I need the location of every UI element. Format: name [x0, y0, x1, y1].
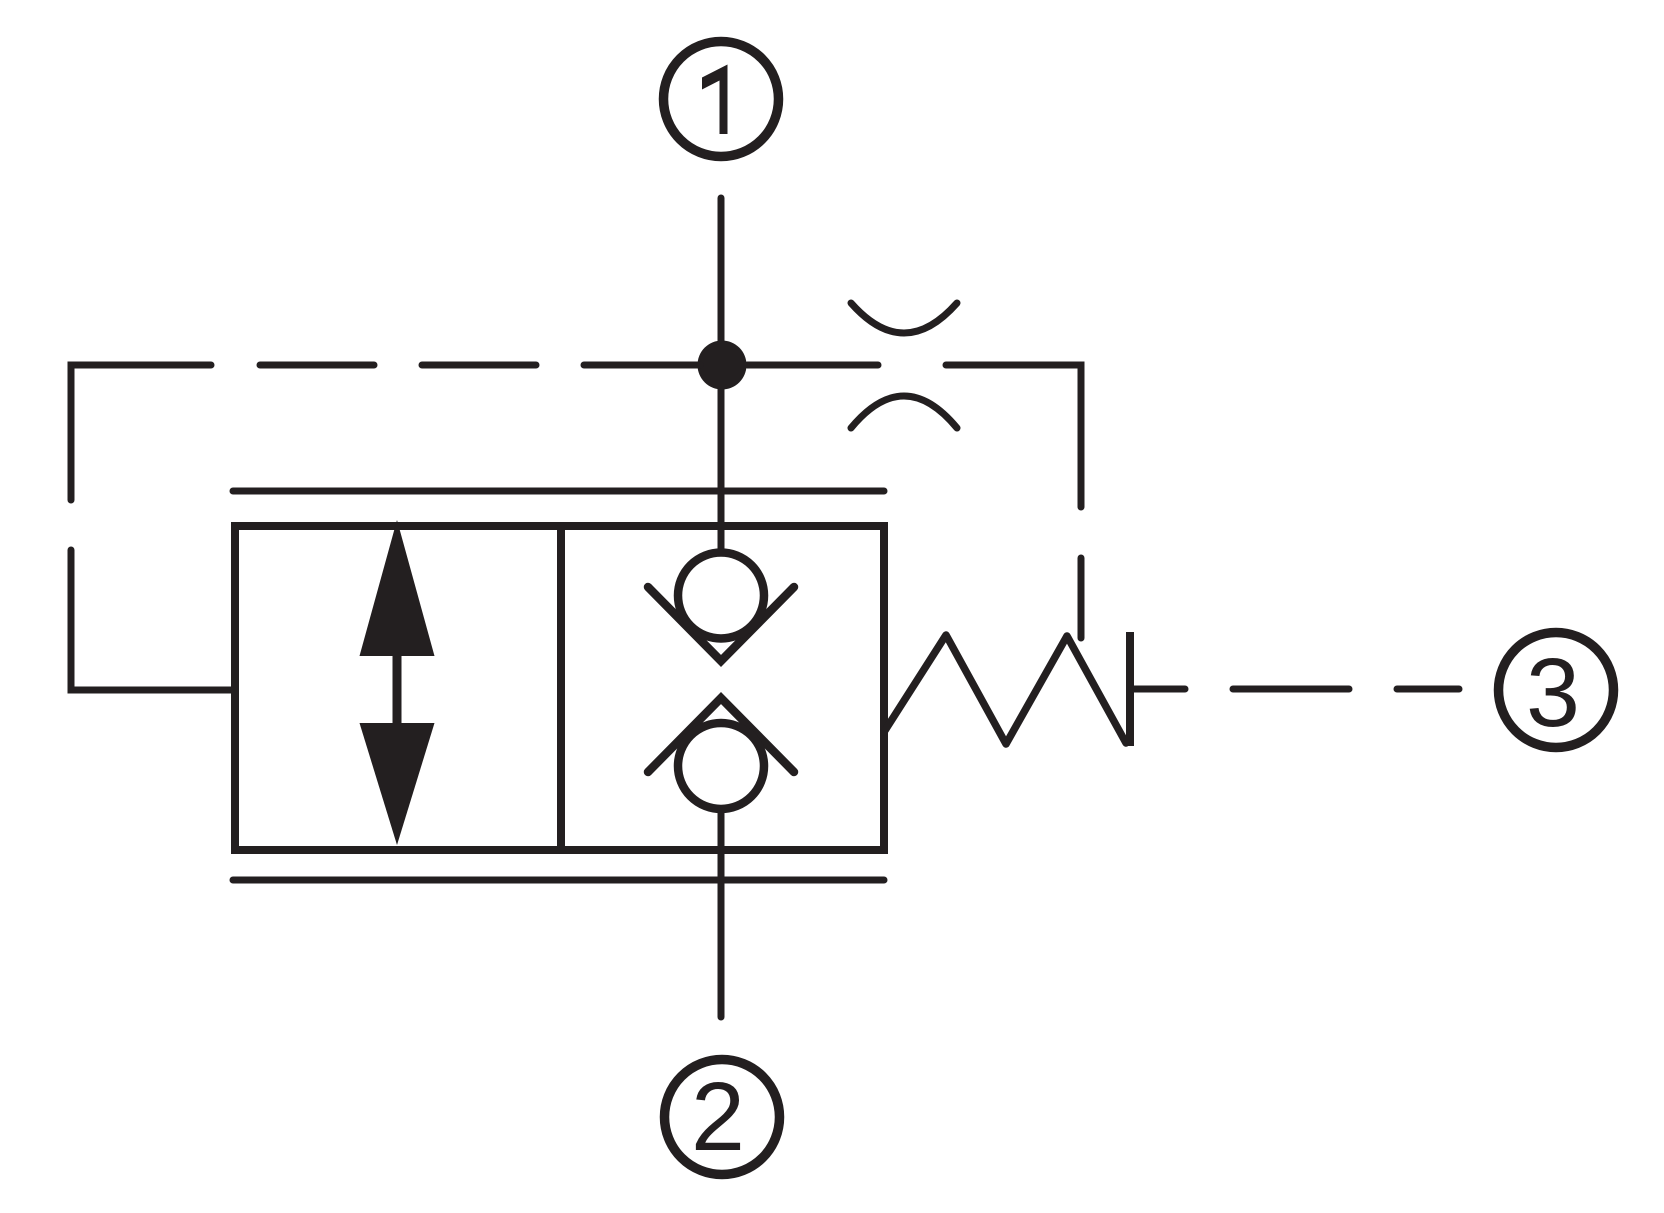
orifice upper arc — [851, 303, 957, 333]
svg-text:3: 3 — [1526, 638, 1580, 747]
pilot dash segment — [422, 362, 536, 369]
flow arrow down triangle — [360, 723, 435, 845]
port 1 label "1" — [702, 65, 728, 135]
spring — [884, 635, 1126, 744]
valve divider — [557, 526, 565, 850]
pilot dashed line top-left horizontal with corner — [71, 365, 211, 500]
svg-text:2: 2 — [691, 1062, 745, 1171]
pilot dash segment — [260, 362, 374, 369]
pilot dashed left vertical lower dash and corner to valve — [71, 550, 232, 690]
orifice lower arc — [851, 396, 957, 428]
pilot line spring to port 3, solid stub — [1132, 686, 1185, 693]
port 2 circle — [665, 1060, 780, 1175]
check valve top seat — [648, 587, 794, 661]
port 1 circle — [664, 42, 779, 157]
valve body — [235, 526, 884, 850]
wire orifice to right corner, down — [946, 365, 1081, 507]
junction dot — [698, 341, 747, 390]
wire bottom check valve to port 2 — [718, 810, 725, 1017]
flow arrow shaft — [393, 650, 402, 728]
flow arrow up triangle — [360, 520, 435, 656]
pilot dash segment — [1233, 686, 1349, 693]
wire junction to orifice — [747, 362, 878, 369]
check valve bottom seat — [648, 698, 794, 772]
check valve top ball — [678, 553, 764, 639]
valve lower double line — [233, 877, 884, 884]
pilot dash segment — [584, 362, 700, 369]
spring seat bar — [1126, 632, 1134, 746]
valve upper double line — [233, 488, 884, 495]
pilot dash segment — [1397, 686, 1459, 693]
port 3 circle — [1499, 633, 1614, 748]
pilot dash right vertical — [1078, 558, 1085, 638]
wire port 1 to top check valve — [718, 198, 725, 553]
check valve bottom ball — [678, 723, 764, 809]
